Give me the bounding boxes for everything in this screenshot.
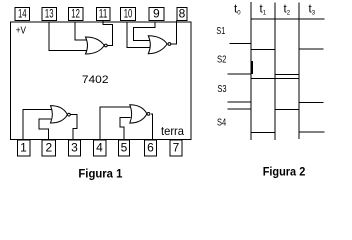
svg-text:1: 1 — [20, 140, 27, 154]
svg-text:terra: terra — [161, 124, 184, 138]
signal S2 rising edge at t0 — [251, 61, 253, 74]
signal S1 high segment — [251, 18, 324, 20]
svg-text:11: 11 — [99, 6, 108, 20]
pin box 14 — [15, 8, 30, 21]
NOR gate U1B body — [148, 36, 167, 54]
signal S3 low segment before t0 — [228, 101, 252, 103]
signal S3 high segment t0-t2 — [251, 78, 299, 80]
IC body U1 7402 — [11, 22, 192, 139]
svg-text:Figura 2: Figura 2 — [263, 165, 306, 179]
NOR gate U1A bubble — [104, 44, 107, 47]
svg-text:10: 10 — [124, 6, 133, 20]
signal S2 low segment t1-t2 — [276, 73, 300, 75]
signal S2 low segment before t0 — [227, 73, 251, 75]
wire pin4 to U1D input — [100, 107, 130, 140]
pin box 11 — [96, 8, 109, 21]
pin box 12 — [68, 8, 83, 21]
pin box 13 — [42, 8, 57, 21]
svg-text:5: 5 — [121, 140, 128, 154]
wire U1A output to pin11 — [103, 21, 112, 46]
svg-text:8: 8 — [179, 6, 186, 20]
wire pin9 to U1B input — [134, 22, 155, 40]
pin box 8 — [177, 8, 187, 21]
wire pin10 to U1B input — [127, 22, 150, 48]
signal S2 high segment t0-t1 — [252, 49, 276, 51]
wire pin13 to U1A input — [49, 22, 87, 50]
NOR gate U1A body — [86, 37, 105, 54]
signal S4 high segment t1-t2 — [276, 109, 300, 111]
signal S1 low segment — [230, 42, 252, 44]
NOR gate U1D bubble — [147, 113, 150, 116]
signal S3 low segment t2-t3 — [299, 102, 323, 104]
NOR gate U1D body — [130, 105, 147, 123]
wire pin5 to U1D input — [120, 118, 131, 140]
svg-text:7: 7 — [173, 140, 180, 154]
NOR gate U1C body — [51, 106, 68, 123]
svg-text:t2: t2 — [284, 4, 291, 17]
svg-text:Figura 1: Figura 1 — [78, 166, 122, 180]
gridline t2 — [298, 3, 300, 140]
svg-text:S4: S4 — [217, 116, 226, 128]
wire U1D output to pin6 — [151, 114, 152, 140]
svg-text:13: 13 — [45, 6, 54, 20]
signal S4 low segment t2-t3 — [299, 131, 324, 133]
svg-text:9: 9 — [153, 6, 160, 20]
gridline t1 — [274, 3, 276, 141]
svg-text:t1: t1 — [260, 4, 267, 17]
svg-text:14: 14 — [18, 6, 27, 20]
NOR gate U1C bubble — [68, 113, 71, 116]
svg-text:S3: S3 — [217, 83, 226, 95]
pin box 5 — [118, 140, 129, 156]
gridline t0 — [250, 2, 252, 140]
svg-text:3: 3 — [71, 140, 78, 154]
pin box 1 — [17, 140, 30, 156]
svg-text:S2: S2 — [217, 53, 227, 65]
pin box 3 — [69, 140, 81, 156]
svg-text:S1: S1 — [216, 25, 225, 37]
svg-text:6: 6 — [147, 140, 154, 154]
NOR gate U1B bubble — [168, 43, 171, 46]
wire pin1 to U1C input — [23, 109, 52, 140]
svg-text:+V: +V — [16, 24, 26, 36]
pin box 7 — [170, 140, 182, 156]
wire U1B output to pin8 — [171, 21, 177, 45]
svg-text:4: 4 — [96, 140, 103, 154]
wire pin12 to U1A input — [75, 22, 87, 40]
pin box 6 — [144, 140, 156, 156]
wire pin2 to U1C input — [39, 119, 51, 140]
pin box 4 — [93, 140, 106, 156]
svg-text:7402: 7402 — [82, 74, 109, 86]
pin box 10 — [121, 8, 136, 21]
svg-text:t0: t0 — [234, 4, 241, 17]
pin box 2 — [42, 140, 56, 156]
svg-text:t3: t3 — [309, 4, 316, 17]
signal S4 high segment before t0 — [228, 108, 252, 110]
signal S4 low segment t0-t1 — [251, 132, 275, 134]
signal S2 high segment t2-t3 — [299, 48, 323, 50]
pin box 9 — [149, 8, 164, 21]
svg-text:2: 2 — [45, 140, 52, 154]
wire U1C output to pin3 — [70, 115, 77, 140]
svg-text:12: 12 — [71, 6, 80, 20]
